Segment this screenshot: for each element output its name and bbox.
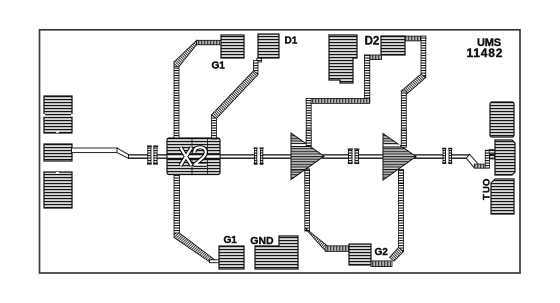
svg-text:G2: G2 [375, 247, 389, 258]
svg-text:D2: D2 [365, 36, 380, 48]
svg-text:D1: D1 [285, 36, 298, 47]
svg-text:T: T [481, 194, 492, 200]
svg-text:G1: G1 [224, 235, 238, 246]
svg-text:U: U [481, 186, 492, 193]
svg-text:G1: G1 [212, 61, 226, 72]
svg-text:11482: 11482 [467, 46, 504, 60]
svg-text:GND: GND [250, 235, 274, 247]
svg-text:O: O [481, 179, 492, 186]
